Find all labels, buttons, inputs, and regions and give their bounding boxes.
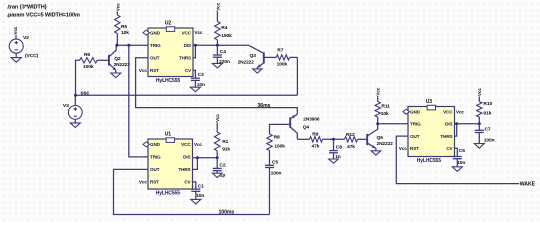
wire U3 DIS to THRS bbox=[455, 124, 457, 136]
svg-text:36ms: 36ms bbox=[258, 103, 271, 109]
wire R5 bottom bbox=[116, 34, 118, 46]
wire Q3 base to R7 bbox=[264, 56, 277, 58]
transistor Q3 bbox=[238, 45, 264, 69]
wire U1 OUT 100ms rail bbox=[114, 169, 270, 214]
wire Q5 collector to U3 TRIG bbox=[378, 123, 408, 125]
svg-text:U2: U2 bbox=[165, 21, 172, 27]
svg-text:Vcc: Vcc bbox=[194, 142, 202, 147]
svg-text:10n: 10n bbox=[196, 193, 204, 199]
transistor Q4 bbox=[270, 114, 320, 139]
svg-text:Q5: Q5 bbox=[377, 135, 384, 141]
svg-text:GND: GND bbox=[150, 30, 161, 35]
svg-text:GND: GND bbox=[150, 142, 161, 147]
svg-text:DIS: DIS bbox=[445, 122, 452, 127]
voltage source V2 bbox=[9, 35, 29, 53]
ground C7 bbox=[474, 144, 484, 149]
wire R6 left to osc bbox=[76, 60, 80, 95]
capacitor C7 bbox=[475, 124, 495, 144]
svg-text:10k: 10k bbox=[381, 111, 389, 117]
capacitor C6 bbox=[453, 148, 466, 167]
svg-text:100k: 100k bbox=[274, 144, 285, 150]
svg-text:R5: R5 bbox=[121, 24, 127, 30]
svg-text:R8: R8 bbox=[274, 134, 280, 140]
svg-text:Vcc: Vcc bbox=[139, 68, 147, 73]
svg-text:CV: CV bbox=[446, 146, 453, 151]
net label Vcc (R5) bbox=[115, 3, 120, 11]
svg-text:CV: CV bbox=[185, 68, 192, 73]
svg-text:Vcc: Vcc bbox=[399, 146, 407, 151]
svg-text:Vcc: Vcc bbox=[13, 26, 18, 34]
spice directive .param bbox=[7, 12, 80, 18]
svg-text:R4: R4 bbox=[221, 25, 227, 31]
ground C1 bbox=[191, 199, 201, 204]
wire R11 bottom to TRIG bbox=[376, 117, 379, 125]
ground C4 bbox=[212, 63, 222, 68]
svg-text:TRIG: TRIG bbox=[410, 122, 421, 127]
wire U2 DIS to THRS bbox=[193, 45, 195, 58]
svg-text:C6: C6 bbox=[459, 148, 465, 154]
svg-text:C5: C5 bbox=[272, 159, 278, 165]
net label Vcc (R1) bbox=[215, 114, 220, 122]
wire R6 to Q2 base bbox=[97, 59, 109, 61]
svg-text:Vcc: Vcc bbox=[195, 30, 203, 35]
svg-text:Q3: Q3 bbox=[250, 53, 257, 59]
svg-text:2N2222: 2N2222 bbox=[377, 141, 394, 147]
wire R10 top bbox=[478, 96, 480, 101]
wire Q4 collector to R9 bbox=[297, 138, 309, 140]
svg-text:U3: U3 bbox=[426, 99, 433, 105]
ground Q3 emitter bbox=[253, 69, 262, 73]
resistor R12 bbox=[345, 132, 358, 150]
wire osc net bbox=[74, 94, 297, 97]
wire V2 top bbox=[15, 35, 17, 39]
svg-text:Q4: Q4 bbox=[303, 125, 310, 131]
net label Vcc (R4) bbox=[215, 2, 220, 10]
wire U3 OUT to WAKE bbox=[396, 136, 519, 184]
svg-text:47k: 47k bbox=[347, 144, 355, 150]
wire R9 to R12 bbox=[323, 138, 345, 141]
svg-text:THRS: THRS bbox=[179, 56, 191, 61]
svg-text:Vcc: Vcc bbox=[115, 3, 120, 11]
svg-text:WAKE: WAKE bbox=[520, 181, 536, 187]
resistor R9 bbox=[310, 132, 323, 150]
svg-text:100k: 100k bbox=[277, 62, 288, 68]
wire R1 top bbox=[216, 122, 218, 132]
resistor R5 bbox=[115, 15, 130, 36]
wire osc up to R7 bbox=[296, 57, 298, 95]
transistor Q2 bbox=[109, 45, 130, 72]
svg-text:OUT: OUT bbox=[150, 56, 160, 61]
svg-text:.param VCC=5 WIDTH=100m: .param VCC=5 WIDTH=100m bbox=[7, 12, 80, 18]
svg-text:Q2: Q2 bbox=[114, 56, 121, 62]
svg-text:VCC: VCC bbox=[443, 110, 453, 115]
svg-text:VCC: VCC bbox=[181, 142, 191, 147]
capacitor C1 bbox=[191, 182, 204, 200]
svg-text:.tran {3*WIDTH}: .tran {3*WIDTH} bbox=[7, 4, 48, 10]
svg-text:THRS: THRS bbox=[440, 134, 452, 139]
svg-text:R12: R12 bbox=[346, 132, 355, 138]
svg-text:10k: 10k bbox=[121, 30, 129, 36]
wire U1 DIS to THRS bbox=[193, 158, 198, 170]
svg-text:150k: 150k bbox=[221, 33, 232, 39]
svg-text:C7: C7 bbox=[485, 127, 491, 133]
svg-text:100k: 100k bbox=[83, 64, 94, 70]
transistor Q5 bbox=[367, 124, 393, 151]
voltage source V3 bbox=[63, 103, 82, 119]
svg-text:OUT: OUT bbox=[150, 167, 160, 172]
svg-text:GND: GND bbox=[410, 110, 421, 115]
ground V2 bbox=[11, 58, 21, 63]
wire R1 bottom bbox=[216, 151, 218, 158]
svg-text:(VCC): (VCC) bbox=[25, 53, 39, 59]
wire R8 to C5 bbox=[269, 151, 271, 166]
ground C8 bbox=[329, 159, 339, 163]
svg-text:osc: osc bbox=[81, 91, 90, 97]
wire R4 bottom bbox=[216, 40, 218, 45]
ground C2 bbox=[212, 173, 222, 177]
resistor R8 bbox=[267, 134, 285, 151]
op-amp/timer U1 HyLHC555 bbox=[139, 132, 202, 197]
svg-text:THRS: THRS bbox=[178, 167, 190, 172]
svg-text:CV: CV bbox=[184, 180, 191, 185]
capacitor C2 bbox=[213, 158, 226, 179]
spice directive .tran bbox=[7, 4, 48, 10]
capacitor C5 bbox=[265, 159, 281, 176]
capacitor C8 bbox=[329, 139, 342, 160]
svg-text:HyLHC555: HyLHC555 bbox=[417, 158, 442, 164]
svg-text:91k: 91k bbox=[483, 111, 491, 117]
svg-text:Vcc: Vcc bbox=[215, 2, 220, 10]
ground C6 bbox=[452, 167, 462, 172]
svg-text:R7: R7 bbox=[277, 48, 283, 54]
svg-text:RST: RST bbox=[410, 146, 419, 151]
svg-text:RST: RST bbox=[150, 180, 159, 185]
svg-text:TRIG: TRIG bbox=[150, 155, 161, 160]
svg-text:10n: 10n bbox=[457, 160, 465, 166]
svg-text:R6: R6 bbox=[84, 52, 90, 58]
svg-text:OUT: OUT bbox=[410, 134, 420, 139]
resistor R6 bbox=[80, 52, 98, 70]
svg-text:DIS: DIS bbox=[184, 43, 191, 48]
svg-text:U1: U1 bbox=[165, 132, 172, 138]
wire U2 DIS net bbox=[193, 44, 249, 47]
svg-text:Vcc: Vcc bbox=[477, 88, 482, 96]
wire U2 TRIG to U1 TRIG bbox=[129, 45, 148, 157]
svg-text:C3: C3 bbox=[198, 72, 204, 78]
svg-text:C1: C1 bbox=[198, 183, 204, 189]
svg-text:100n: 100n bbox=[271, 170, 282, 176]
wire R5 top bbox=[116, 12, 118, 15]
svg-text:Vcc: Vcc bbox=[376, 87, 381, 95]
capacitor C3 bbox=[191, 70, 205, 88]
svg-text:RST: RST bbox=[150, 68, 159, 73]
svg-text:91k: 91k bbox=[222, 146, 230, 152]
wire R7 right bbox=[290, 56, 298, 58]
wire TRIG net to U2 bbox=[115, 44, 148, 47]
svg-text:C8: C8 bbox=[336, 145, 342, 151]
svg-text:100ms: 100ms bbox=[219, 210, 235, 216]
net label WAKE bbox=[520, 181, 536, 187]
net label 100ms bbox=[219, 210, 235, 216]
ground C3 bbox=[190, 87, 200, 92]
op-amp/timer U3 HyLHC555 bbox=[399, 99, 464, 164]
svg-text:Vcc: Vcc bbox=[139, 180, 147, 185]
net label Vcc (V2) bbox=[13, 26, 18, 34]
svg-text:2N2222: 2N2222 bbox=[114, 62, 131, 68]
wire V3 bottom bbox=[74, 119, 76, 123]
svg-text:C2: C2 bbox=[219, 163, 225, 169]
value label (VCC) bbox=[25, 53, 39, 59]
svg-text:Vcc: Vcc bbox=[215, 114, 220, 122]
svg-text:R10: R10 bbox=[483, 101, 492, 107]
resistor R1 bbox=[215, 132, 231, 152]
svg-text:HyLHC555: HyLHC555 bbox=[156, 78, 181, 84]
wire R11 top bbox=[377, 96, 379, 102]
resistor R10 bbox=[477, 101, 493, 117]
capacitor C4 bbox=[213, 45, 230, 65]
svg-text:2N2222: 2N2222 bbox=[238, 60, 255, 66]
resistor R11 bbox=[375, 102, 390, 118]
net label osc bbox=[81, 91, 90, 97]
wire U2 OUT loop 36ms bbox=[136, 58, 298, 115]
wire V3 top bbox=[74, 95, 76, 105]
svg-text:100n: 100n bbox=[484, 137, 495, 143]
svg-text:R1: R1 bbox=[222, 139, 228, 145]
wire C5 to 100ms rail bbox=[269, 168, 271, 215]
wire R12 to Q5 base bbox=[358, 138, 368, 140]
svg-text:2N3906: 2N3906 bbox=[303, 116, 320, 122]
resistor R4 bbox=[215, 22, 232, 40]
wire R4 top bbox=[216, 11, 218, 21]
wire U3 DIS net bbox=[455, 122, 481, 125]
wire V2 bottom bbox=[15, 53, 17, 58]
net label Vcc (R10) bbox=[477, 88, 482, 96]
net label 36ms bbox=[258, 103, 271, 109]
svg-text:R11: R11 bbox=[381, 104, 390, 110]
ground Q2 emitter bbox=[111, 73, 121, 78]
svg-text:DIS: DIS bbox=[183, 155, 190, 160]
svg-text:Vcc: Vcc bbox=[456, 109, 464, 114]
op-amp/timer U2 HyLHC555 bbox=[139, 21, 203, 85]
wire R10 bottom bbox=[478, 117, 480, 124]
resistor R7 bbox=[276, 48, 289, 68]
svg-text:R9: R9 bbox=[312, 132, 318, 138]
svg-text:HyLHC555: HyLHC555 bbox=[156, 191, 181, 197]
svg-text:TRIG: TRIG bbox=[150, 43, 161, 48]
svg-text:47k: 47k bbox=[312, 143, 320, 149]
svg-text:VCC: VCC bbox=[182, 30, 192, 35]
wire U1 DIS net bbox=[193, 156, 219, 159]
svg-text:V2: V2 bbox=[23, 35, 29, 41]
net label Vcc (R11) bbox=[376, 87, 381, 95]
ground V3 bbox=[70, 123, 80, 128]
svg-text:C4: C4 bbox=[220, 49, 226, 55]
ground Q5 emitter bbox=[371, 151, 381, 155]
svg-text:V3: V3 bbox=[63, 103, 69, 109]
